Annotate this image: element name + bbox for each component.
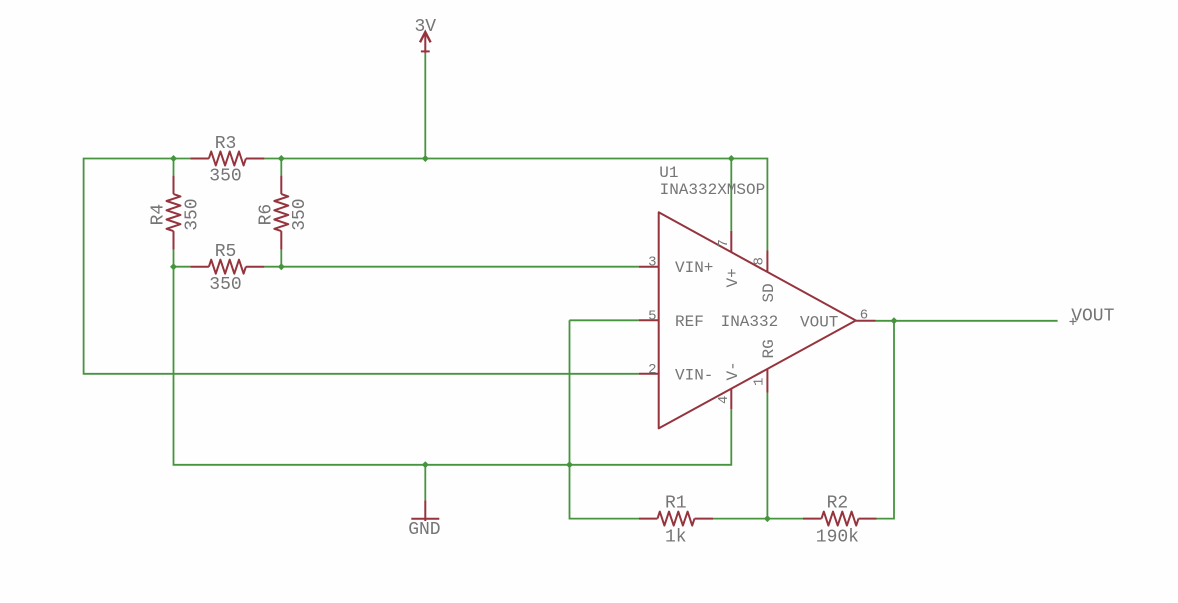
- svg-text:R2: R2: [827, 494, 849, 514]
- svg-text:350: 350: [209, 167, 241, 187]
- svg-text:R4: R4: [149, 204, 169, 226]
- svg-text:R3: R3: [215, 134, 237, 154]
- svg-text:RG: RG: [760, 339, 778, 358]
- svg-text:7: 7: [716, 239, 732, 247]
- svg-text:350: 350: [209, 275, 241, 295]
- svg-text:VIN+: VIN+: [675, 259, 713, 277]
- svg-text:5: 5: [648, 308, 656, 324]
- svg-text:SD: SD: [760, 283, 778, 302]
- svg-text:2: 2: [648, 362, 656, 378]
- svg-text:350: 350: [290, 198, 310, 230]
- svg-text:VOUT: VOUT: [1071, 307, 1114, 327]
- svg-text:R1: R1: [665, 494, 687, 514]
- svg-text:V-: V-: [724, 361, 742, 380]
- svg-text:1: 1: [752, 378, 768, 386]
- svg-text:R6: R6: [256, 204, 276, 226]
- svg-text:U1: U1: [659, 164, 678, 182]
- svg-text:INA332XMSOP: INA332XMSOP: [660, 181, 766, 199]
- svg-text:3V: 3V: [414, 17, 436, 37]
- svg-text:190k: 190k: [816, 528, 859, 548]
- svg-text:8: 8: [752, 257, 768, 265]
- svg-text:6: 6: [860, 308, 868, 324]
- svg-text:INA332: INA332: [721, 313, 779, 331]
- svg-text:VOUT: VOUT: [800, 313, 838, 331]
- svg-text:VIN-: VIN-: [675, 366, 713, 384]
- svg-text:GND: GND: [408, 520, 440, 540]
- svg-text:4: 4: [716, 396, 732, 404]
- svg-text:R5: R5: [215, 242, 237, 262]
- svg-text:1k: 1k: [665, 528, 687, 548]
- svg-text:350: 350: [182, 198, 202, 230]
- svg-text:3: 3: [648, 254, 656, 270]
- svg-text:REF: REF: [675, 313, 704, 331]
- svg-text:V+: V+: [724, 268, 742, 287]
